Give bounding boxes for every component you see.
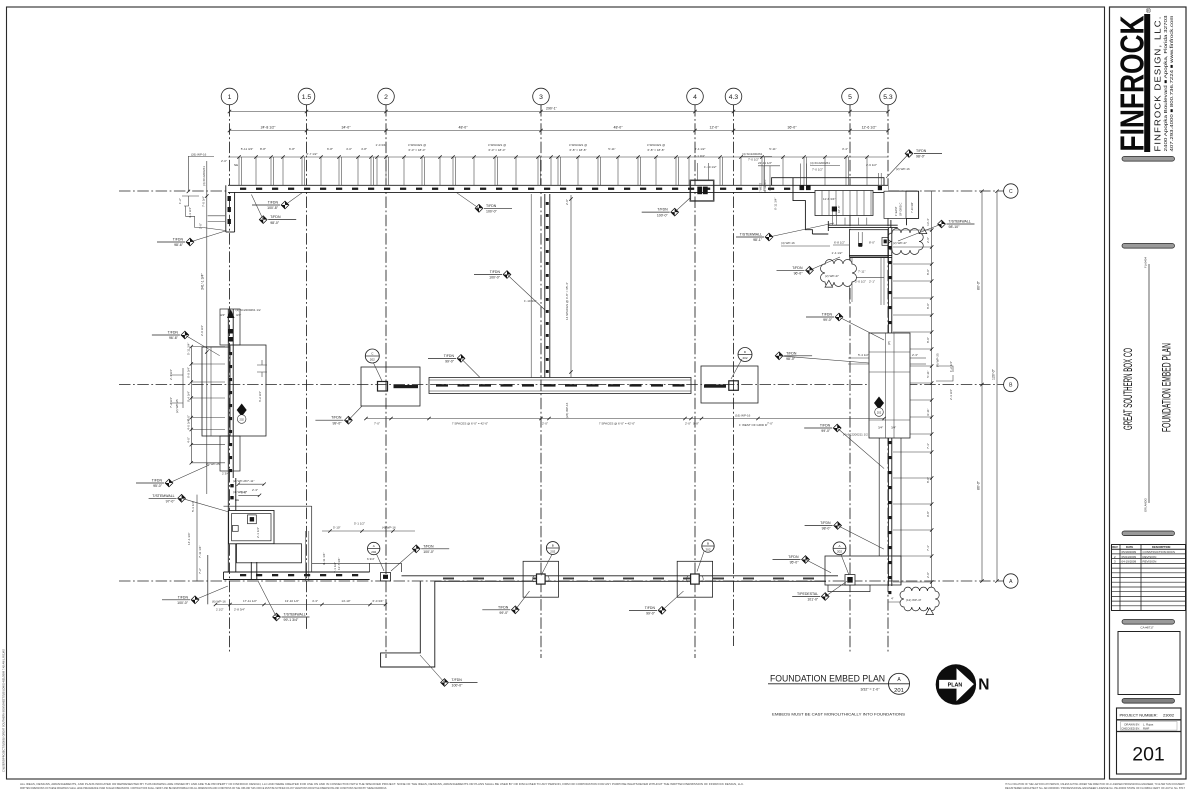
svg-text:PLAN: PLAN bbox=[948, 683, 963, 689]
svg-text:ORLANDO: ORLANDO bbox=[1144, 497, 1148, 512]
callout T/FDN beamR bbox=[775, 351, 869, 363]
svg-text:2'-6 1/2": 2'-6 1/2" bbox=[866, 163, 877, 167]
svg-text:17'-11 1/2": 17'-11 1/2" bbox=[243, 599, 257, 603]
svg-text:CA #8717: CA #8717 bbox=[1140, 626, 1154, 630]
svg-text:8'-0": 8'-0" bbox=[241, 491, 247, 495]
wing plank rect bbox=[815, 191, 873, 216]
svg-text:14'-10": 14'-10" bbox=[341, 599, 350, 603]
svg-text:FINFROCK DESIGN, LLC.: FINFROCK DESIGN, LLC. bbox=[1154, 16, 1163, 152]
svg-text:1'-10 3/4": 1'-10 3/4" bbox=[524, 299, 537, 303]
svg-text:98'-0": 98'-0" bbox=[822, 527, 832, 531]
svg-text:98'-6": 98'-6" bbox=[174, 243, 184, 247]
right wall bbox=[888, 228, 892, 594]
svg-text:8'-0": 8'-0" bbox=[926, 303, 930, 309]
svg-text:REVISION: REVISION bbox=[1143, 555, 1157, 559]
svg-text:5'-11": 5'-11" bbox=[608, 147, 615, 151]
svg-text:2'-3": 2'-3" bbox=[252, 488, 258, 492]
svg-text:98'-1": 98'-1" bbox=[753, 238, 763, 242]
detail bubble A202r bbox=[833, 542, 846, 555]
svg-text:48'-0": 48'-0" bbox=[459, 125, 469, 129]
svg-text:1'-0 3/4": 1'-0 3/4" bbox=[376, 143, 387, 147]
svg-text:®: ® bbox=[1146, 7, 1151, 15]
svg-text:100'-8": 100'-8" bbox=[267, 206, 279, 210]
title bubble A/201 bbox=[889, 673, 910, 694]
svg-text:FOUNDATION EMBED PLAN: FOUNDATION EMBED PLAN bbox=[770, 674, 885, 685]
svg-text:4'-0 3/4": 4'-0 3/4" bbox=[187, 419, 191, 430]
revision cloud WP-47 c bbox=[888, 229, 924, 255]
callout T/STEMWALL J bbox=[736, 223, 834, 242]
grid line 1 bbox=[221, 88, 238, 652]
svg-text:4.3: 4.3 bbox=[729, 94, 739, 101]
pilaster side ticks bbox=[848, 353, 953, 400]
svg-text:T/FDN: T/FDN bbox=[498, 605, 509, 609]
wing right cell bbox=[884, 191, 914, 218]
callout T/FDN g2 bbox=[391, 544, 449, 571]
svg-text:T/STEMWALL: T/STEMWALL bbox=[949, 220, 971, 224]
svg-text:2400 Apopka Boulevard ■ Apopka: 2400 Apopka Boulevard ■ Apopka, Florida … bbox=[1163, 15, 1168, 152]
callout T/FDN F bbox=[642, 198, 690, 217]
svg-text:1'-10 1/2": 1'-10 1/2" bbox=[704, 165, 717, 169]
svg-text:22'-11 1/2": 22'-11 1/2" bbox=[758, 161, 772, 165]
svg-text:(2) WP-25: (2) WP-25 bbox=[175, 399, 179, 413]
svg-text:98'-0": 98'-0" bbox=[916, 155, 926, 159]
svg-text:7'-0": 7'-0" bbox=[374, 422, 380, 426]
svg-text:4: 4 bbox=[693, 94, 697, 101]
svg-text:6'-0" = 18'-0": 6'-0" = 18'-0" bbox=[488, 148, 505, 152]
svg-text:(12) WP-47: (12) WP-47 bbox=[906, 598, 922, 602]
svg-text:99'-0": 99'-0" bbox=[332, 421, 342, 425]
callout T/STEMWALL bl bbox=[149, 494, 229, 512]
callout T/FDN cornerBL bbox=[162, 586, 228, 605]
svg-text:1'-2 1/4": 1'-2 1/4" bbox=[949, 361, 953, 372]
svg-text:7'-2 3/4": 7'-2 3/4" bbox=[169, 397, 173, 408]
svg-text:NE: NE bbox=[234, 163, 238, 167]
svg-text:99'-0": 99'-0" bbox=[445, 360, 455, 364]
bottom dim string bbox=[212, 599, 387, 612]
svg-text:341'-1 3/4": 341'-1 3/4" bbox=[201, 273, 205, 290]
svg-text:6'-8": 6'-8" bbox=[289, 147, 295, 151]
svg-text:5'-11 3/4": 5'-11 3/4" bbox=[187, 343, 191, 355]
svg-text:3: 3 bbox=[539, 94, 543, 101]
svg-text:3/4": 3/4" bbox=[891, 426, 896, 430]
left dimension 341-1 bbox=[201, 161, 209, 494]
svg-text:1: 1 bbox=[228, 94, 232, 101]
drawing title bbox=[768, 674, 910, 692]
svg-text:2'-1 3/4": 2'-1 3/4" bbox=[169, 369, 173, 380]
svg-text:FOUNDATION EMBED PLAN: FOUNDATION EMBED PLAN bbox=[1162, 343, 1174, 432]
divider capsule 2b bbox=[1122, 531, 1175, 536]
svg-text:6'-0 3/4": 6'-0 3/4" bbox=[373, 599, 384, 603]
svg-text:3 SPACES @: 3 SPACES @ bbox=[569, 143, 587, 147]
svg-text:98'-10": 98'-10" bbox=[949, 225, 961, 229]
svg-text:REV: REV bbox=[1112, 545, 1118, 549]
svg-text:FL#0404: FL#0404 bbox=[1144, 257, 1148, 268]
svg-text:IT IS A VIOLATION OF THE LAW F: IT IS A VIOLATION OF THE LAW FOR ANY PER… bbox=[1005, 782, 1185, 786]
svg-text:(P): (P) bbox=[887, 341, 891, 345]
svg-text:100'-0": 100'-0" bbox=[177, 601, 189, 605]
svg-text:14'-1 3/4": 14'-1 3/4" bbox=[187, 532, 191, 545]
svg-text:2: 2 bbox=[384, 94, 388, 101]
section marker mid sec bbox=[237, 404, 247, 424]
svg-text:(4) 6C2200261 1/2: (4) 6C2200261 1/2 bbox=[236, 308, 261, 312]
svg-text:(2) WP-16: (2) WP-16 bbox=[896, 167, 910, 171]
svg-text:7'-3": 7'-3" bbox=[926, 545, 930, 551]
wing lower cell bbox=[849, 230, 892, 258]
svg-text:7'-1 1/2": 7'-1 1/2" bbox=[333, 562, 337, 573]
svg-text:7'-2": 7'-2" bbox=[198, 568, 202, 574]
seal box bbox=[1118, 632, 1180, 695]
right wall embed ticks + dim bbox=[893, 191, 933, 612]
interior wall dim bbox=[524, 195, 573, 418]
svg-text:WRITTEN DIMENSIONS ON THESE DR: WRITTEN DIMENSIONS ON THESE DRAWINGS SHA… bbox=[20, 786, 387, 790]
interior wall grid 3 bbox=[531, 194, 550, 378]
svg-text:6'-11 3/4": 6'-11 3/4" bbox=[774, 198, 778, 210]
callout T/FDN ped2 bbox=[773, 555, 832, 573]
svg-text:4'-3": 4'-3" bbox=[312, 599, 318, 603]
svg-text:T/FDN: T/FDN bbox=[788, 555, 799, 559]
svg-text:(2) WP-47: (2) WP-47 bbox=[893, 241, 907, 245]
svg-text:RWF: RWF bbox=[1143, 726, 1150, 730]
svg-text:100'-0": 100'-0" bbox=[486, 210, 498, 214]
svg-text:1' EAST: 1' EAST bbox=[894, 206, 898, 216]
svg-text:3'-3 3/4": 3'-3 3/4" bbox=[188, 207, 192, 218]
svg-text:3 SPACES @: 3 SPACES @ bbox=[408, 143, 426, 147]
svg-text:99'-0": 99'-0" bbox=[499, 611, 509, 615]
svg-text:100'-0": 100'-0" bbox=[452, 684, 464, 688]
project number box bbox=[1117, 708, 1182, 774]
svg-text:1' WEST OF GRID D: 1' WEST OF GRID D bbox=[739, 423, 768, 427]
svg-text:(4) 6C2200261: (4) 6C2200261 bbox=[202, 166, 206, 186]
svg-text:(4) WP-25: (4) WP-25 bbox=[936, 353, 940, 367]
wing embeds bbox=[758, 161, 910, 191]
svg-text:48'-0": 48'-0" bbox=[614, 125, 624, 129]
callout T/FDN K bbox=[777, 257, 841, 276]
svg-text:12'-0": 12'-0" bbox=[710, 125, 720, 129]
svg-text:3'-4": 3'-4" bbox=[842, 147, 848, 151]
callout T/FDN p4 bbox=[629, 591, 684, 616]
grid line 5.3 bbox=[880, 88, 897, 654]
right wall pilaster bbox=[843, 333, 910, 438]
svg-text:1.5: 1.5 bbox=[302, 94, 312, 101]
svg-text:05/18/2009: 05/18/2009 bbox=[1122, 550, 1137, 554]
svg-text:2'-6": 2'-6" bbox=[926, 237, 930, 243]
bay dimension line bbox=[228, 125, 890, 132]
svg-text:T/FDN: T/FDN bbox=[657, 208, 668, 212]
FINFROCK logo bbox=[1114, 7, 1174, 152]
svg-text:T/FDN: T/FDN bbox=[452, 678, 463, 682]
top-left corner wall bbox=[226, 185, 235, 232]
svg-text:1'-2": 1'-2" bbox=[178, 198, 182, 204]
top-left dim details bbox=[178, 153, 227, 231]
callout T/PED bbox=[792, 581, 847, 602]
section marker wall sec bbox=[874, 397, 884, 417]
callout T/FDN B bbox=[251, 195, 296, 225]
svg-text:8'-0": 8'-0" bbox=[926, 337, 930, 343]
svg-text:2'-0": 2'-0" bbox=[926, 572, 930, 578]
svg-text:23002: 23002 bbox=[1163, 713, 1175, 718]
revision delta bbox=[919, 227, 927, 234]
callout T/FDN wall1 bbox=[806, 313, 884, 341]
svg-text:T/STEMWALL: T/STEMWALL bbox=[284, 613, 306, 617]
svg-text:2'-0": 2'-0" bbox=[199, 223, 203, 229]
grid line 2 bbox=[378, 88, 395, 658]
svg-text:5'-11": 5'-11" bbox=[926, 370, 930, 377]
svg-text:6'-0" = 18'-0": 6'-0" = 18'-0" bbox=[408, 148, 425, 152]
svg-text:OF GRID C: OF GRID C bbox=[899, 202, 903, 216]
detail bubble B202b bbox=[702, 540, 714, 552]
svg-text:96'-0": 96'-0" bbox=[794, 272, 804, 276]
svg-text:A: A bbox=[373, 544, 375, 548]
svg-text:407.293.4000 ■ 800.736.7224 ■: 407.293.4000 ■ 800.736.7224 ■ www.finfro… bbox=[1169, 15, 1174, 151]
svg-text:86'-0": 86'-0" bbox=[977, 480, 981, 490]
svg-text:202: 202 bbox=[742, 356, 747, 360]
svg-text:95'-0": 95'-0" bbox=[153, 484, 163, 488]
svg-text:100'-0": 100'-0" bbox=[423, 550, 435, 554]
bottom left corner assembly bbox=[224, 478, 312, 581]
svg-text:5'-3 1/4": 5'-3 1/4" bbox=[191, 501, 195, 512]
left mid wall assembly bbox=[200, 308, 266, 478]
label 4 SC2200261 bbox=[742, 152, 772, 162]
J stem wall extension bbox=[381, 581, 435, 667]
svg-text:201: 201 bbox=[1132, 744, 1165, 766]
svg-text:5.3: 5.3 bbox=[883, 94, 893, 101]
svg-text:T/FDN: T/FDN bbox=[444, 354, 455, 358]
callout T/FDN ped1 bbox=[805, 521, 884, 549]
svg-text:T/FDN: T/FDN bbox=[786, 351, 797, 355]
grid row C bbox=[119, 184, 1018, 198]
svg-text:202: 202 bbox=[370, 357, 375, 361]
svg-text:3/4": 3/4" bbox=[236, 313, 241, 317]
svg-text:2 3/4": 2 3/4" bbox=[222, 472, 230, 476]
svg-text:CONSTRUCTION DOCS: CONSTRUCTION DOCS bbox=[1143, 550, 1176, 554]
svg-text:(4) WP-16: (4) WP-16 bbox=[781, 241, 795, 245]
svg-text:99'-0": 99'-0" bbox=[823, 318, 833, 322]
svg-text:99'-1 3/4": 99'-1 3/4" bbox=[284, 618, 300, 622]
callout T/FDN C bbox=[157, 231, 227, 248]
svg-text:T/FDN: T/FDN bbox=[916, 149, 927, 153]
svg-text:T/FDN: T/FDN bbox=[486, 204, 497, 208]
svg-text:T/FDN: T/FDN bbox=[820, 521, 831, 525]
svg-text:6 3/4": 6 3/4" bbox=[367, 557, 375, 561]
svg-text:T/FDN: T/FDN bbox=[645, 606, 656, 610]
svg-text:(2) WP-47: (2) WP-47 bbox=[825, 274, 839, 278]
revision table bbox=[1112, 545, 1186, 611]
svg-text:T/FDN: T/FDN bbox=[268, 201, 279, 205]
grid line 1.5 bbox=[298, 88, 315, 630]
svg-text:(26) WP-16: (26) WP-16 bbox=[565, 402, 569, 418]
detail bubble D202 bbox=[738, 348, 752, 362]
svg-text:2'-0": 2'-0" bbox=[685, 422, 691, 426]
wing pin and labels bbox=[781, 205, 884, 305]
svg-text:98'-0": 98'-0" bbox=[270, 221, 280, 225]
svg-text:7'-11": 7'-11" bbox=[247, 479, 254, 483]
grid row A bbox=[119, 574, 1018, 588]
svg-text:6'-9 3/4": 6'-9 3/4" bbox=[187, 367, 191, 378]
svg-text:2'-0": 2'-0" bbox=[221, 159, 227, 163]
row A pad grid B4 bbox=[677, 561, 712, 597]
callout T/FDN wall3 bbox=[804, 424, 884, 469]
svg-text:2'-3 3/4": 2'-3 3/4" bbox=[949, 389, 953, 400]
wall step near grid 5 bbox=[759, 178, 794, 210]
left mid dims bbox=[169, 343, 267, 465]
svg-text:95'-0": 95'-0" bbox=[790, 561, 800, 565]
svg-text:98'-0": 98'-0" bbox=[786, 357, 796, 361]
svg-text:T/FDN: T/FDN bbox=[168, 331, 179, 335]
callout T/FDN mid2 bbox=[136, 465, 209, 488]
svg-text:201: 201 bbox=[894, 688, 904, 694]
svg-text:(4) SC2200261: (4) SC2200261 bbox=[742, 152, 763, 156]
svg-text:GREAT SOUTHERN BOX CO: GREAT SOUTHERN BOX CO bbox=[1123, 348, 1135, 430]
svg-text:(26) WP-16: (26) WP-16 bbox=[191, 153, 207, 157]
svg-text:2'-0 1/2": 2'-0 1/2" bbox=[855, 280, 866, 284]
svg-text:REGISTERED ARCHITECT No. AR-00: REGISTERED ARCHITECT No. AR-0000000 / PR… bbox=[1005, 786, 1186, 790]
svg-text:36'-0": 36'-0" bbox=[788, 125, 798, 129]
svg-text:T/STEMWALL: T/STEMWALL bbox=[740, 233, 762, 237]
svg-text:8'-0": 8'-0" bbox=[926, 477, 930, 483]
svg-text:(6) WP-16: (6) WP-16 bbox=[212, 600, 226, 604]
svg-text:11'-7 3/4": 11'-7 3/4" bbox=[337, 558, 341, 570]
grid line 5 bbox=[842, 88, 859, 654]
svg-text:04-19/2009: 04-19/2009 bbox=[1122, 560, 1137, 564]
svg-text:7'-0": 7'-0" bbox=[767, 422, 773, 426]
callout T/FDN p3 bbox=[482, 591, 529, 615]
svg-text:80'-0": 80'-0" bbox=[977, 280, 981, 290]
bottom wall grade beam bbox=[224, 563, 402, 579]
right overall dim 80-0 bbox=[977, 190, 984, 583]
svg-text:2'-0 3/4": 2'-0 3/4" bbox=[200, 325, 204, 336]
detail bubble C202 bbox=[365, 349, 379, 363]
svg-text:202: 202 bbox=[837, 550, 842, 554]
svg-text:9'-11": 9'-11" bbox=[926, 408, 930, 415]
svg-text:0'-8": 0'-8" bbox=[693, 422, 699, 426]
svg-text:DATE: DATE bbox=[1126, 545, 1133, 549]
svg-text:2'-0": 2'-0" bbox=[542, 422, 548, 426]
svg-text:C: C bbox=[1009, 189, 1013, 195]
svg-text:10'-6": 10'-6" bbox=[837, 205, 841, 213]
svg-text:99'-0": 99'-0" bbox=[821, 429, 831, 433]
svg-text:12'-6 1/2": 12'-6 1/2" bbox=[862, 125, 878, 129]
svg-text:96'-6": 96'-6" bbox=[169, 336, 179, 340]
svg-text:T/FDN: T/FDN bbox=[178, 595, 189, 599]
callout T/FDN beamTop bbox=[428, 354, 480, 378]
svg-text:8'-0": 8'-0" bbox=[926, 269, 930, 275]
svg-text:1' WEST: 1' WEST bbox=[759, 182, 763, 193]
svg-text:T/FDN: T/FDN bbox=[331, 416, 342, 420]
svg-text:C:\USERS\PROJECTS\23002 GREAT: C:\USERS\PROJECTS\23002 GREAT SOUTHERN B… bbox=[2, 649, 6, 772]
svg-text:(2) WP-28: (2) WP-28 bbox=[233, 479, 247, 483]
svg-text:3/4": 3/4" bbox=[220, 313, 225, 317]
grid2 raised pad bbox=[370, 563, 402, 581]
svg-text:2 1/2": 2 1/2" bbox=[216, 608, 224, 612]
svg-text:7'-11": 7'-11" bbox=[858, 270, 865, 274]
svg-text:6'-8": 6'-8" bbox=[327, 147, 333, 151]
divider capsule 1 bbox=[1122, 157, 1175, 162]
grid line 4.3 bbox=[725, 88, 742, 646]
beam dimension string bbox=[364, 414, 885, 428]
grid line 3 bbox=[533, 88, 550, 658]
svg-text:N: N bbox=[978, 677, 989, 694]
callout T/FDN A bbox=[252, 193, 302, 210]
svg-text:OF GRID C: OF GRID C bbox=[763, 179, 767, 193]
svg-text:100'-0": 100'-0" bbox=[657, 213, 669, 217]
svg-text:5'-7 1/2": 5'-7 1/2" bbox=[307, 152, 318, 156]
svg-text:NE: NE bbox=[235, 498, 239, 502]
svg-text:B: B bbox=[707, 542, 709, 546]
svg-text:97'-0": 97'-0" bbox=[166, 500, 176, 504]
svg-text:EMBEDS MUST BE CAST MONOLITHIC: EMBEDS MUST BE CAST MONOLITHICALLY INTO … bbox=[772, 713, 906, 717]
svg-text:7'-10 3/4": 7'-10 3/4" bbox=[910, 202, 914, 213]
svg-text:(16) WP-16: (16) WP-16 bbox=[735, 414, 751, 418]
right overall dim 120-0 bbox=[992, 190, 999, 583]
svg-text:4'-8": 4'-8" bbox=[361, 147, 367, 151]
svg-text:7'-0 3/4": 7'-0 3/4" bbox=[202, 196, 206, 207]
svg-text:A: A bbox=[838, 544, 840, 548]
callout T/FDN mid1 bbox=[152, 331, 220, 356]
grid row B bbox=[119, 377, 1018, 391]
svg-text:T/STEMWALL: T/STEMWALL bbox=[152, 494, 174, 498]
svg-text:CHECKED BY:: CHECKED BY: bbox=[1121, 726, 1140, 730]
callout T/FDN beamL bbox=[315, 406, 362, 425]
svg-text:100'-0": 100'-0" bbox=[489, 276, 501, 280]
embed spacing dimension string bbox=[228, 143, 888, 185]
svg-text:05/24/2009: 05/24/2009 bbox=[1122, 555, 1137, 559]
revision delta bbox=[825, 280, 833, 287]
svg-text:(4) 6C2200261: (4) 6C2200261 bbox=[810, 161, 830, 165]
title block frame bbox=[1110, 7, 1187, 779]
grid line 4 bbox=[687, 88, 704, 658]
svg-text:2'-0": 2'-0" bbox=[565, 199, 569, 205]
svg-text:11'-6 3/4": 11'-6 3/4" bbox=[823, 197, 835, 201]
svg-text:8'-8": 8'-8" bbox=[260, 147, 266, 151]
north arrow bbox=[936, 664, 990, 704]
svg-text:T/FDN: T/FDN bbox=[152, 479, 163, 483]
svg-text:6'-2 3/4": 6'-2 3/4" bbox=[258, 391, 262, 402]
svg-text:7'-0 1/2": 7'-0 1/2" bbox=[812, 168, 823, 172]
revision cloud WP-47 b bbox=[821, 260, 857, 287]
detail bubble B202a bbox=[546, 542, 559, 555]
divider capsule 2 bbox=[1122, 244, 1175, 249]
svg-text:T/PEDESTAL: T/PEDESTAL bbox=[797, 592, 818, 596]
svg-text:T/FDN: T/FDN bbox=[792, 266, 803, 270]
svg-text:99'-0": 99'-0" bbox=[646, 612, 656, 616]
callout T/FDN D bbox=[474, 270, 545, 310]
svg-text:5'-10": 5'-10" bbox=[333, 526, 341, 530]
row B pad C/202 bbox=[361, 367, 420, 406]
svg-text:(4) WP-16: (4) WP-16 bbox=[382, 526, 396, 530]
svg-text:(4) 6C2200211 1/2: (4) 6C2200211 1/2 bbox=[843, 433, 868, 437]
svg-text:7'-0 1/2": 7'-0 1/2" bbox=[748, 158, 759, 162]
svg-text:7'-11 1/4": 7'-11 1/4" bbox=[198, 546, 202, 558]
svg-text:5'-4 1/2": 5'-4 1/2" bbox=[858, 353, 869, 357]
svg-text:202: 202 bbox=[240, 418, 245, 422]
svg-text:6'-8" = 18'-8": 6'-8" = 18'-8" bbox=[647, 148, 664, 152]
svg-text:PROJECT NUMBER:: PROJECT NUMBER: bbox=[1120, 713, 1158, 718]
callout T/FDN J-ext bbox=[420, 655, 478, 688]
project name bbox=[1123, 257, 1174, 512]
svg-text:REVISION: REVISION bbox=[1143, 560, 1157, 564]
svg-text:5: 5 bbox=[848, 94, 852, 101]
revision delta bbox=[926, 608, 934, 615]
divider capsule 4 bbox=[1122, 699, 1175, 704]
overall dimension line 290-1 bbox=[228, 107, 890, 114]
svg-text:T/FDN: T/FDN bbox=[822, 313, 833, 317]
svg-text:34'-0": 34'-0" bbox=[342, 125, 352, 129]
svg-text:3 SPACES @: 3 SPACES @ bbox=[647, 143, 665, 147]
detail bubble grid2 pad bbox=[368, 542, 380, 554]
svg-text:13'-4": 13'-4" bbox=[926, 218, 930, 226]
svg-text:6'-8" = 18'-8": 6'-8" = 18'-8" bbox=[569, 148, 586, 152]
svg-text:5'-11 3/4": 5'-11 3/4" bbox=[241, 147, 253, 151]
